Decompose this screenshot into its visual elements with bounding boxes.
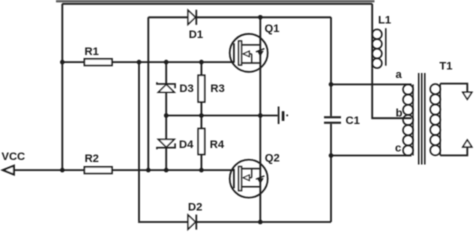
- wire secondary top lead: [440, 84, 467, 92]
- wire R2 row (Q2 gate row): [4, 169, 234, 171]
- node junction dot R4 bottom: [199, 168, 204, 173]
- svg-text:b: b: [396, 107, 403, 119]
- transformer T1 secondary winding: [430, 84, 440, 155]
- wire zener chain vertical: [165, 62, 167, 170]
- wire R3 R4 chain vertical: [200, 62, 202, 170]
- node junction dot C1 node c: [329, 153, 334, 158]
- MOSFET Q2: [230, 160, 268, 198]
- wire top rail VCC to L1: [62, 3, 372, 5]
- node junction dot R3-R4 mid: [199, 113, 204, 118]
- diode D1: [188, 10, 196, 25]
- node junction dot B bottom: [146, 168, 151, 173]
- wire mid row (sources node): [166, 115, 278, 117]
- node junction dot R3 top: [199, 60, 204, 65]
- svg-text:L1: L1: [378, 15, 391, 27]
- svg-text:T1: T1: [439, 60, 452, 72]
- wire L1 top lead: [371, 4, 373, 68]
- MOSFET Q2 body diode: [256, 176, 265, 184]
- MOSFET Q1 body diode: [256, 49, 265, 57]
- svg-text:c: c: [395, 142, 401, 154]
- resistor R1: [84, 59, 112, 66]
- node junction dot zener bottom: [164, 168, 169, 173]
- resistor R3: [198, 75, 205, 102]
- svg-text:Q2: Q2: [265, 153, 280, 165]
- battery cell symbol at mid row: [279, 107, 289, 125]
- wire cross-couple vertical B (D1 anode to Q2 gate row): [147, 17, 149, 170]
- wire secondary bottom lead: [440, 147, 467, 155]
- node junction dot rail-R1: [60, 60, 65, 65]
- MOSFET Q1: [230, 34, 268, 72]
- svg-text:D1: D1: [189, 29, 203, 41]
- resistor R2: [84, 167, 112, 174]
- wire R1 row (Q1 gate row): [62, 61, 234, 63]
- svg-text:D3: D3: [179, 83, 193, 95]
- svg-text:D4: D4: [179, 139, 194, 151]
- svg-text:D2: D2: [188, 201, 202, 213]
- wire node a row: [331, 83, 412, 85]
- wire bottom row (D2 row): [139, 220, 331, 223]
- node junction dot Q1 source mid row: [258, 113, 263, 118]
- node junction dot zener top: [164, 60, 169, 65]
- output arrow bottom (up): [463, 140, 472, 147]
- output arrow top (down): [463, 92, 472, 99]
- VCC arrow terminal: [3, 166, 14, 175]
- transformer T1 secondary spine: [439, 84, 441, 156]
- resistor R4: [198, 129, 205, 155]
- wire main drain-source vertical through Q1 Q2: [259, 17, 261, 222]
- svg-text:R4: R4: [210, 139, 225, 151]
- transformer T1 primary spine: [412, 84, 414, 155]
- wire cross-couple vertical A (Q1 gate row to D2 anode): [138, 62, 140, 221]
- svg-text:Q1: Q1: [265, 23, 280, 35]
- diode D2: [188, 215, 196, 230]
- node junction dot A top: [137, 60, 142, 65]
- capacitor C1: [324, 117, 341, 123]
- wire node b row (L1 to center tap): [372, 68, 411, 118]
- svg-text:R3: R3: [210, 83, 224, 95]
- node junction dot C1 node a: [329, 82, 334, 87]
- inductor L1: [372, 29, 382, 68]
- top border gray band: [56, 0, 375, 2]
- svg-text:VCC: VCC: [2, 151, 26, 163]
- inductor L1 core line: [385, 28, 387, 65]
- wire VCC left rail vertical: [61, 4, 63, 170]
- node junction dot Q1 drain / D1 row: [258, 15, 263, 20]
- transformer T1 core: [419, 73, 425, 165]
- transformer T1 primary winding: [403, 84, 413, 155]
- node junction dot Q2 source bottom row: [258, 220, 263, 225]
- node junction dot zener mid: [164, 113, 169, 118]
- svg-text:R1: R1: [85, 46, 99, 58]
- wire C1 branch vertical: [330, 17, 332, 222]
- wire D1 row: [148, 16, 331, 18]
- node junction dot rail-R2: [60, 168, 65, 173]
- svg-text:a: a: [396, 69, 403, 81]
- svg-text:C1: C1: [346, 115, 360, 127]
- wire node c row: [331, 155, 412, 157]
- zener diode D4: [157, 139, 175, 149]
- zener diode D3: [157, 82, 175, 92]
- svg-text:R2: R2: [85, 153, 99, 165]
